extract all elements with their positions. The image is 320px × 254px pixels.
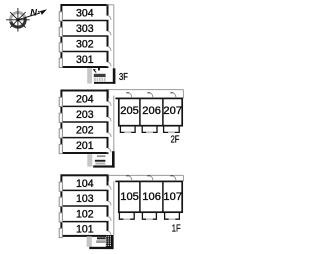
corridor connector at stack corner (108, 90, 110, 98)
room 107 entry door leaf (170, 175, 173, 177)
room 106 balcony (142, 213, 156, 219)
svg-text:201: 201 (76, 140, 94, 152)
room 104 door swing arc (108, 185, 111, 190)
3F stair side wall (gray strip) (87, 68, 92, 83)
wall between room 302 and 301 (61, 51, 107, 53)
3F stair upper flight (dark tread band) (94, 74, 106, 77)
3F stairwell wall (bottom) (94, 82, 115, 84)
apartment row 205-207 outline (119, 98, 182, 125)
room 204 door opening gap (106, 102, 108, 106)
3F corridor edge (right) (113, 5, 115, 69)
room 207 door swing arc (173, 93, 175, 97)
svg-text:206: 206 (142, 105, 161, 117)
room 103 left entry alcove (59, 197, 62, 206)
row top wall extension toward corridor (115, 97, 118, 99)
svg-text:202: 202 (76, 125, 94, 137)
wall between room 104 and 103 (61, 189, 107, 191)
room 202 door opening gap (106, 133, 108, 137)
room 105 entry door leaf (126, 175, 129, 177)
room 107 balcony (165, 213, 180, 219)
room 303 door opening gap (106, 31, 108, 35)
compass spokes (6, 8, 30, 32)
room 301 left entry alcove (59, 58, 62, 67)
svg-text:105: 105 (120, 191, 139, 203)
wall between room 206 and 207 (162, 98, 164, 125)
room 202 left entry alcove (59, 129, 62, 138)
svg-text:301: 301 (76, 54, 94, 66)
svg-text:2F: 2F (171, 135, 180, 146)
row top wall extension toward corridor (115, 180, 118, 182)
room 103 door opening gap (106, 201, 108, 205)
svg-text:304: 304 (76, 8, 94, 20)
room 104 left entry alcove (59, 182, 62, 191)
corridor outer edge (right) (182, 175, 184, 181)
1F stairwell wall (right) (112, 235, 114, 249)
balcony opening mark (168, 131, 175, 133)
room 303 door swing arc (108, 31, 111, 36)
1F corridor edge (right of stack) (113, 181, 115, 235)
svg-text:3F: 3F (119, 72, 128, 83)
room 107 door swing arc (173, 176, 175, 180)
wall between room 205 and 206 (139, 98, 141, 125)
wall between room 304 and 303 (61, 20, 107, 22)
svg-text:203: 203 (76, 109, 94, 121)
wall between room 204 and 203 (61, 105, 107, 107)
svg-text:303: 303 (76, 23, 94, 35)
room 204 door swing arc (108, 101, 111, 106)
balcony opening mark (146, 131, 153, 133)
corridor outer edge (top) (106, 89, 183, 91)
svg-text:106: 106 (142, 191, 161, 203)
room 206 entry door leaf (147, 92, 150, 94)
room 103 door swing arc (108, 201, 111, 206)
corridor connector at stack corner (108, 176, 110, 181)
balcony opening mark (123, 218, 130, 220)
svg-text:204: 204 (76, 93, 94, 105)
room 201 left entry alcove (59, 144, 62, 153)
wall between room 106 and 107 (162, 181, 164, 212)
svg-text:302: 302 (76, 39, 94, 51)
room 301 door opening gap (106, 62, 108, 66)
room 205 entry door leaf (126, 92, 129, 94)
apartment stack 104-101 outline (61, 175, 107, 236)
svg-text:103: 103 (76, 193, 94, 205)
3F stair up-arrow (95, 71, 97, 73)
room 203 left entry alcove (59, 113, 62, 122)
wall between room 303 and 302 (61, 35, 107, 37)
svg-text:101: 101 (76, 224, 94, 236)
room 203 door swing arc (108, 117, 111, 122)
compass center dot (16, 18, 19, 21)
1F stair side wall (gray strip) (87, 236, 92, 246)
compass rose ring (11, 12, 26, 27)
room 302 left entry alcove (59, 43, 62, 52)
3F corridor edge (top connector) (107, 4, 114, 6)
svg-text:207: 207 (163, 105, 182, 117)
room 202 door swing arc (108, 133, 111, 138)
balcony opening mark (169, 218, 176, 220)
2F stair side wall (gray strip) (87, 154, 92, 166)
room 106 door swing arc (150, 176, 152, 180)
room 201 door opening gap (106, 148, 108, 152)
room 101 left entry alcove (59, 228, 62, 237)
wall between room 203 and 202 (61, 121, 107, 123)
room 207 balcony (164, 127, 180, 133)
1F stairwell wall (bottom) (89, 247, 113, 249)
room 203 door opening gap (106, 117, 108, 121)
svg-text:205: 205 (120, 105, 139, 117)
room 102 door opening gap (106, 217, 108, 221)
room 301 door swing arc (108, 62, 111, 67)
3F stair lower flight (light treads) (94, 77, 106, 81)
room 304 door opening gap (106, 16, 108, 20)
room 303 left entry alcove (59, 27, 62, 36)
room 201 door swing arc (108, 148, 111, 153)
room 302 door swing arc (108, 46, 111, 51)
2F stairwell wall (bottom) (93, 165, 114, 167)
balcony opening mark (124, 131, 131, 133)
room 102 left entry alcove (59, 213, 62, 222)
wall between room 202 and 201 (61, 137, 107, 139)
2F stair treads (97, 155, 105, 157)
3F wall stub below room 301 (98, 68, 100, 71)
room 302 door opening gap (106, 47, 108, 51)
room 105 balcony (119, 213, 134, 219)
svg-text:107: 107 (163, 191, 182, 203)
1F stair treads (97, 237, 106, 239)
compass arrowhead (40, 9, 48, 15)
room 206 balcony (142, 127, 157, 133)
1F upper stair flight (hatched) (106, 235, 112, 249)
room 206 door swing arc (150, 93, 152, 97)
room 104 door opening gap (106, 186, 108, 190)
compass needle dot (38, 11, 40, 13)
wall between room 102 and 101 (61, 221, 107, 223)
balcony opening mark (146, 218, 153, 220)
3F stairwell wall (right) (113, 68, 116, 84)
wall between room 105 and 106 (139, 181, 141, 212)
room 204 left entry alcove (59, 97, 62, 106)
room 304 door swing arc (108, 15, 111, 20)
corridor outer edge (top) (106, 174, 183, 176)
room 101 door opening gap (106, 231, 108, 235)
room 106 entry door leaf (147, 175, 150, 177)
room 304 left entry alcove (59, 12, 62, 21)
room 102 door swing arc (108, 217, 111, 222)
2F stairwell wall (right) (112, 151, 115, 167)
room 101 door swing arc (108, 231, 111, 236)
svg-text:102: 102 (76, 209, 94, 221)
apartment row 105-107 outline (119, 181, 182, 212)
room 105 door swing arc (129, 176, 131, 180)
wall between room 103 and 102 (61, 205, 107, 207)
compass needle line (18, 13, 40, 20)
svg-text:104: 104 (76, 178, 94, 190)
svg-text:N: N (30, 7, 38, 18)
corridor outer edge (right) (182, 90, 184, 99)
room 205 door swing arc (129, 93, 131, 97)
room 207 entry door leaf (170, 92, 173, 94)
2F corridor edge (right of stack) (113, 96, 115, 152)
apartment stack 304-301 outline (61, 5, 107, 67)
svg-text:1F: 1F (172, 224, 181, 235)
apartment stack 204-201 outline (61, 91, 107, 154)
compass rose dark lower arc (11, 17, 25, 27)
room 205 balcony (120, 127, 135, 133)
